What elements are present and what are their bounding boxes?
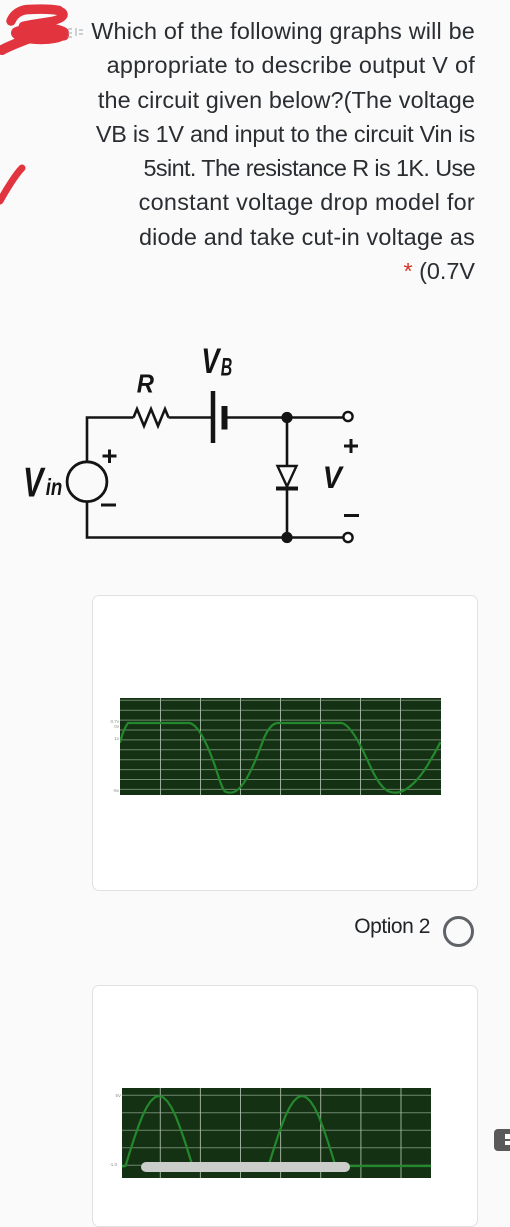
svg-text:R: R	[137, 369, 154, 399]
svg-text:in: in	[46, 474, 63, 500]
svg-text:V: V	[323, 459, 345, 495]
svg-text:B: B	[221, 353, 233, 381]
svg-text:V: V	[23, 458, 46, 505]
svg-text:V: V	[201, 342, 221, 381]
